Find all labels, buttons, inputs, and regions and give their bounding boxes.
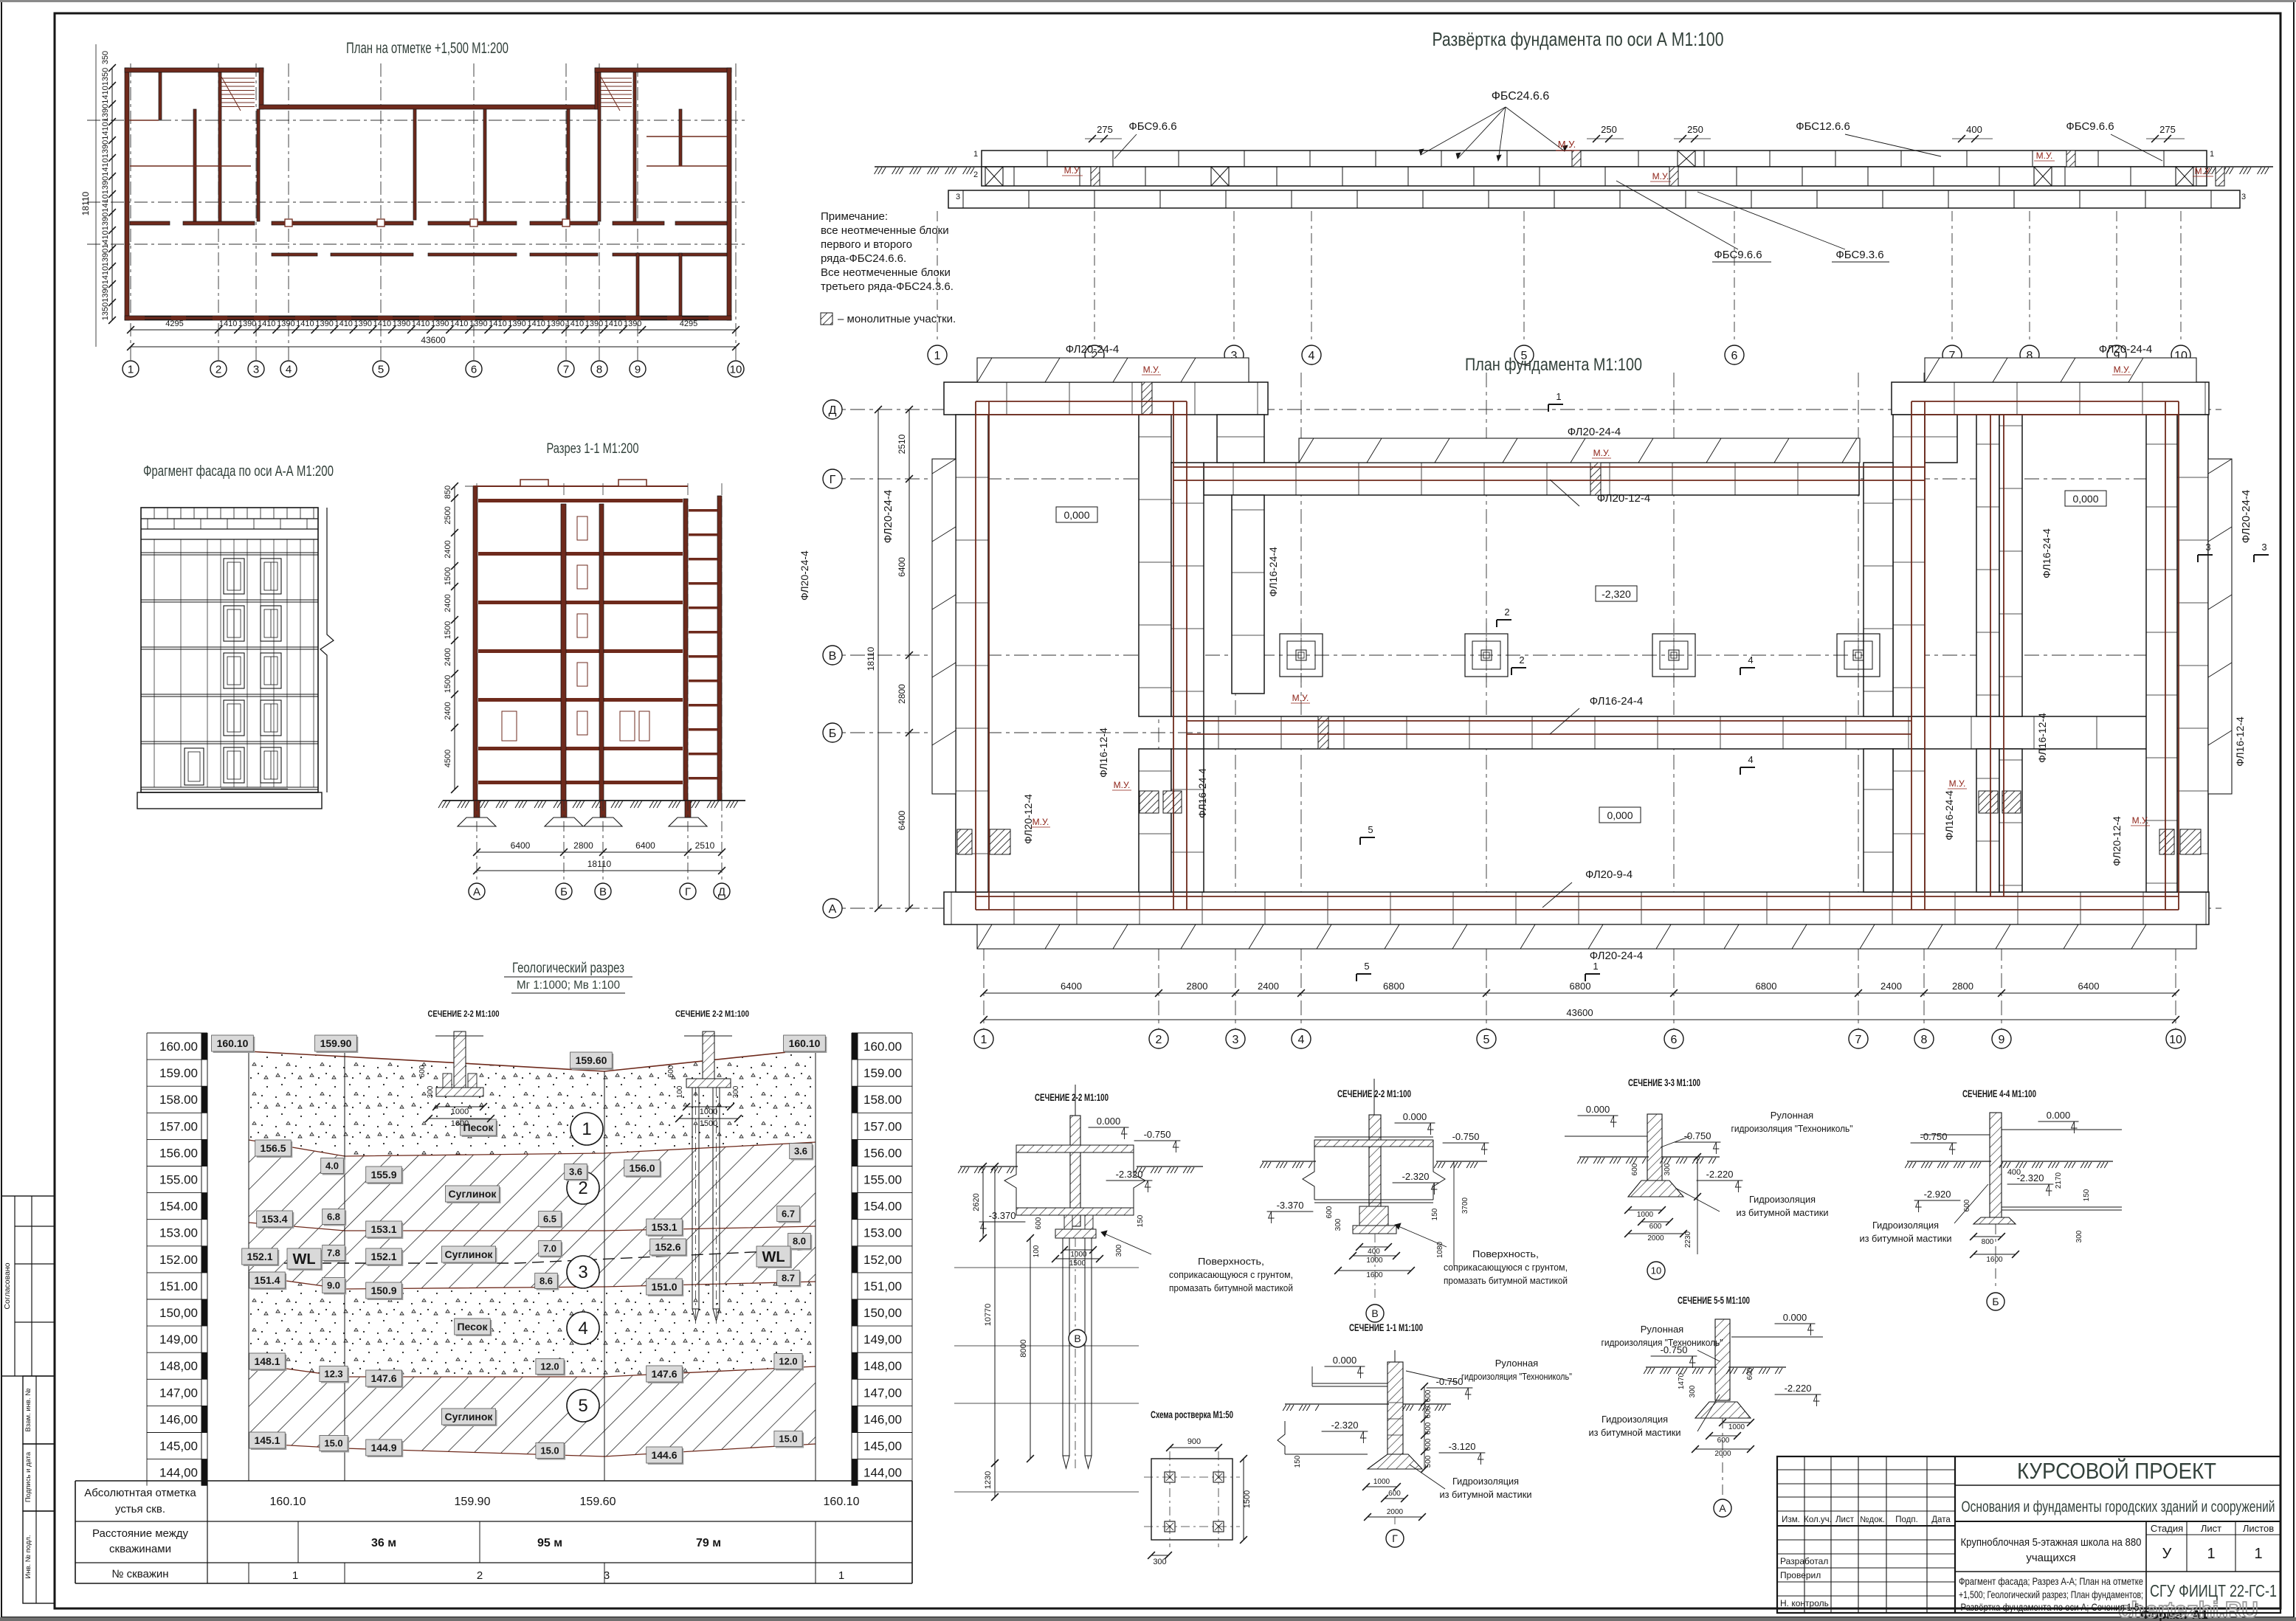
svg-text:1390: 1390 — [101, 249, 110, 266]
svg-text:1390: 1390 — [101, 212, 110, 230]
svg-text:8.6: 8.6 — [539, 1276, 553, 1287]
svg-text:1: 1 — [1556, 391, 1561, 402]
svg-text:WL: WL — [292, 1251, 315, 1268]
svg-text:6.8: 6.8 — [327, 1212, 340, 1223]
svg-text:промазать битумной мастикой: промазать битумной мастикой — [1444, 1275, 1568, 1286]
svg-text:1500: 1500 — [444, 621, 452, 639]
svg-text:2: 2 — [216, 363, 221, 376]
svg-text:148,00: 148,00 — [159, 1359, 198, 1373]
svg-text:промазать битумной мастикой: промазать битумной мастикой — [1169, 1282, 1293, 1293]
band G middle — [1204, 463, 1859, 495]
svg-text:М.У.: М.У. — [2195, 166, 2212, 176]
svg-text:153.00: 153.00 — [159, 1226, 198, 1240]
section outline — [476, 483, 478, 801]
svg-text:1230: 1230 — [984, 1471, 993, 1489]
svg-text:3700: 3700 — [1461, 1197, 1469, 1214]
svg-text:6400: 6400 — [635, 840, 655, 851]
svg-text:1410: 1410 — [373, 319, 391, 328]
svg-text:145.1: 145.1 — [254, 1434, 280, 1446]
svg-text:9.0: 9.0 — [327, 1280, 340, 1291]
svg-text:4295: 4295 — [680, 319, 697, 328]
svg-text:600: 600 — [1388, 1490, 1401, 1498]
svg-text:6400: 6400 — [1061, 981, 1082, 992]
svg-text:150: 150 — [1294, 1455, 1302, 1468]
svg-text:Подп.: Подп. — [1895, 1515, 1918, 1524]
svg-text:3: 3 — [956, 193, 960, 201]
svg-text:160.00: 160.00 — [863, 1040, 902, 1054]
left margin table Взам.инв — [23, 1376, 55, 1444]
svg-text:2000: 2000 — [1714, 1450, 1731, 1458]
svg-text:ФБС9.6.6: ФБС9.6.6 — [2066, 120, 2114, 133]
svg-text:7.0: 7.0 — [543, 1243, 556, 1254]
svg-text:1390: 1390 — [393, 319, 410, 328]
development axis circles — [937, 211, 938, 344]
svg-text:-2.320: -2.320 — [1402, 1171, 1430, 1182]
svg-text:-3.120: -3.120 — [1449, 1441, 1476, 1452]
svg-text:155.00: 155.00 — [159, 1173, 198, 1187]
svg-text:2620: 2620 — [972, 1193, 981, 1211]
svg-text:План фундамента М1:100: План фундамента М1:100 — [1465, 355, 1642, 375]
soil name tags — [462, 1121, 498, 1137]
svg-text:ФЛ16-12-4: ФЛ16-12-4 — [2036, 713, 2048, 763]
svg-text:1000: 1000 — [700, 1107, 717, 1116]
svg-text:Абсолютнтая отметка: Абсолютнтая отметка — [84, 1487, 196, 1499]
svg-text:первого и второго: первого и второго — [821, 238, 912, 251]
left margin table Согласовано — [1, 1196, 55, 1376]
svg-text:1410: 1410 — [101, 266, 110, 284]
svg-text:152.1: 152.1 — [247, 1251, 272, 1262]
svg-text:Подпись и дата: Подпись и дата — [24, 1451, 32, 1502]
svg-text:152.00: 152.00 — [159, 1253, 198, 1267]
svg-text:4: 4 — [286, 363, 292, 376]
svg-text:2800: 2800 — [1952, 981, 1973, 992]
svg-text:Лист: Лист — [1835, 1515, 1855, 1524]
svg-text:150,00: 150,00 — [863, 1306, 902, 1320]
svg-text:36 м: 36 м — [371, 1537, 396, 1549]
svg-text:-2.220: -2.220 — [1706, 1169, 1734, 1180]
svg-text:Изм.: Изм. — [1782, 1515, 1800, 1524]
section axis circles — [476, 801, 478, 883]
svg-text:2: 2 — [1156, 1034, 1162, 1046]
svg-text:1410: 1410 — [101, 158, 110, 176]
svg-text:158.00: 158.00 — [863, 1093, 902, 1107]
svg-text:ФЛ20-12-4: ФЛ20-12-4 — [2111, 816, 2123, 866]
stairs left — [221, 77, 255, 79]
svg-text:М.У.: М.У. — [1652, 171, 1669, 182]
svg-text:1410: 1410 — [101, 230, 110, 248]
svg-text:Рулонная: Рулонная — [1771, 1110, 1813, 1121]
svg-text:Гидроизоляция: Гидроизоляция — [1749, 1194, 1816, 1205]
svg-text:1000: 1000 — [1637, 1211, 1654, 1219]
svg-text:8000: 8000 — [1019, 1339, 1028, 1357]
svg-text:600: 600 — [1424, 1389, 1433, 1402]
svg-text:1350: 1350 — [101, 68, 110, 86]
svg-text:5: 5 — [1368, 824, 1373, 835]
svg-text:0.000: 0.000 — [1783, 1312, 1807, 1323]
svg-text:151.0: 151.0 — [651, 1281, 677, 1293]
svg-text:158.00: 158.00 — [159, 1093, 198, 1107]
svg-text:ФЛ16-24-4: ФЛ16-24-4 — [1943, 790, 1955, 840]
svg-text:600: 600 — [1746, 1367, 1754, 1380]
svg-text:№док.: №док. — [1860, 1515, 1885, 1524]
svg-text:1000: 1000 — [1728, 1423, 1745, 1431]
stairs right — [601, 77, 632, 79]
svg-text:Лист: Лист — [2201, 1523, 2221, 1534]
development monolith X blocks — [985, 167, 1003, 186]
svg-text:из битумной мастики: из битумной мастики — [1440, 1489, 1532, 1500]
svg-text:147,00: 147,00 — [159, 1386, 198, 1400]
svg-text:1410: 1410 — [101, 194, 110, 212]
svg-text:учащихся: учащихся — [2026, 1552, 2075, 1564]
svg-text:300: 300 — [1334, 1218, 1342, 1231]
floor plan outer walls — [125, 68, 129, 320]
svg-text:600: 600 — [1424, 1406, 1433, 1418]
right tower vertical bands — [1893, 415, 1925, 716]
svg-text:10: 10 — [1651, 1265, 1661, 1276]
svg-text:М.У.: М.У. — [2114, 364, 2131, 375]
svg-text:151,00: 151,00 — [863, 1279, 902, 1293]
svg-text:соприкасающуюся с грунтом,: соприкасающуюся с грунтом, — [1444, 1262, 1568, 1273]
svg-text:156.00: 156.00 — [863, 1146, 902, 1160]
svg-text:160.10: 160.10 — [824, 1496, 860, 1508]
svg-text:159.60: 159.60 — [580, 1496, 616, 1508]
svg-text:1000: 1000 — [451, 1107, 469, 1116]
svg-text:2800: 2800 — [897, 684, 907, 704]
svg-text:третьего ряда-ФБС24.3.6.: третьего ряда-ФБС24.3.6. — [821, 280, 954, 293]
svg-text:0.000: 0.000 — [1097, 1116, 1121, 1127]
svg-text:149,00: 149,00 — [159, 1333, 198, 1347]
svg-text:2400: 2400 — [444, 594, 452, 612]
svg-text:1000: 1000 — [1373, 1478, 1390, 1486]
svg-text:152.1: 152.1 — [370, 1251, 396, 1262]
svg-text:8.7: 8.7 — [782, 1273, 795, 1284]
svg-text:144,00: 144,00 — [863, 1466, 902, 1480]
svg-text:1600: 1600 — [451, 1119, 469, 1128]
svg-text:М.У.: М.У. — [1558, 139, 1576, 150]
svg-text:М.У.: М.У. — [1064, 165, 1081, 176]
svg-text:1470: 1470 — [1678, 1372, 1686, 1389]
svg-text:144,00: 144,00 — [159, 1466, 198, 1480]
svg-text:-0.750: -0.750 — [1920, 1131, 1948, 1142]
facade outline — [141, 508, 318, 792]
svg-text:600: 600 — [1325, 1206, 1334, 1218]
svg-text:Б: Б — [560, 885, 568, 898]
svg-text:2: 2 — [973, 170, 978, 179]
svg-text:В: В — [599, 885, 607, 898]
svg-text:156.00: 156.00 — [159, 1146, 198, 1160]
svg-text:157.00: 157.00 — [863, 1119, 902, 1133]
plan bottom dim chains — [131, 329, 642, 331]
svg-text:2000: 2000 — [1647, 1234, 1664, 1242]
svg-text:СЕЧЕНИЕ 2-2 М1:100: СЕЧЕНИЕ 2-2 М1:100 — [1035, 1091, 1109, 1103]
svg-text:7: 7 — [563, 363, 569, 376]
svg-text:А: А — [829, 903, 837, 916]
svg-text:250: 250 — [1601, 124, 1617, 135]
svg-text:-3.370: -3.370 — [1277, 1200, 1304, 1211]
svg-text:1500: 1500 — [444, 567, 452, 585]
svg-text:ФБС9.3.6: ФБС9.3.6 — [1835, 249, 1883, 261]
svg-text:Д: Д — [718, 885, 725, 898]
development block rows — [982, 151, 2207, 167]
svg-text:1390: 1390 — [431, 319, 449, 328]
svg-text:Мг 1:1000; Мв 1:100: Мг 1:1000; Мв 1:100 — [517, 979, 620, 992]
svg-text:10: 10 — [2169, 1034, 2182, 1046]
svg-text:Разрез 1-1 М1:200: Разрез 1-1 М1:200 — [547, 441, 639, 457]
svg-text:2800: 2800 — [1187, 981, 1208, 992]
svg-text:144.6: 144.6 — [651, 1449, 677, 1461]
svg-text:79 м: 79 м — [696, 1537, 721, 1549]
svg-text:1410: 1410 — [101, 86, 110, 103]
title block right part — [1955, 1485, 2281, 1486]
svg-text:Основания и фундаменты городск: Основания и фундаменты городских зданий … — [1962, 1499, 2275, 1515]
svg-text:ФБС9.6.6: ФБС9.6.6 — [1128, 120, 1176, 133]
svg-text:2400: 2400 — [444, 702, 452, 719]
svg-text:0,000: 0,000 — [2072, 493, 2098, 505]
svg-text:скважинами: скважинами — [109, 1543, 171, 1555]
svg-text:400: 400 — [2007, 1168, 2021, 1177]
svg-text:300: 300 — [1689, 1385, 1697, 1397]
svg-text:Геологический разрез: Геологический разрез — [512, 961, 624, 976]
svg-text:1410: 1410 — [101, 122, 110, 139]
svg-text:2400: 2400 — [1880, 981, 1902, 992]
section inner walls — [561, 504, 566, 801]
svg-text:СЕЧЕНИЕ 1-1 М1:100: СЕЧЕНИЕ 1-1 М1:100 — [1349, 1321, 1423, 1333]
svg-text:4: 4 — [1309, 350, 1315, 362]
svg-text:0,000: 0,000 — [1607, 809, 1633, 821]
svg-text:6.5: 6.5 — [543, 1214, 556, 1225]
svg-text:18110: 18110 — [80, 191, 91, 215]
facade panel joints — [154, 539, 155, 787]
svg-text:8: 8 — [596, 363, 602, 376]
facade windows — [224, 559, 244, 594]
svg-text:150,00: 150,00 — [159, 1306, 198, 1320]
brown building outline over foundation — [976, 401, 1187, 402]
svg-text:ФЛ16-24-4: ФЛ16-24-4 — [2041, 528, 2052, 578]
svg-text:Фрагмент фасада по оси А-А М1:: Фрагмент фасада по оси А-А М1:200 — [143, 463, 334, 480]
svg-text:8.0: 8.0 — [793, 1236, 806, 1247]
svg-text:300: 300 — [427, 1085, 435, 1098]
svg-text:2: 2 — [1519, 654, 1524, 666]
section bottom dims — [477, 851, 722, 853]
svg-text:6800: 6800 — [1756, 981, 1777, 992]
svg-text:9: 9 — [1999, 1034, 2005, 1046]
svg-text:3: 3 — [1233, 1034, 1239, 1046]
svg-text:300: 300 — [1664, 1163, 1672, 1175]
svg-text:12.3: 12.3 — [324, 1369, 342, 1380]
svg-text:1: 1 — [2207, 1546, 2215, 1562]
plan left dim chain — [111, 68, 113, 320]
section roof and floors — [478, 499, 683, 502]
floor plan grid lines — [130, 63, 131, 378]
WL line — [249, 1249, 816, 1263]
svg-text:5: 5 — [1364, 961, 1369, 972]
svg-text:1390: 1390 — [315, 319, 333, 328]
svg-text:1390: 1390 — [101, 284, 110, 302]
svg-text:1390: 1390 — [354, 319, 372, 328]
svg-text:159.90: 159.90 — [455, 1496, 491, 1508]
floor plan corridor walls — [130, 221, 170, 225]
svg-text:Примечание:: Примечание: — [821, 210, 888, 223]
svg-text:155.00: 155.00 — [863, 1173, 902, 1187]
svg-text:4: 4 — [1298, 1034, 1305, 1046]
svg-text:гидроизоляция "Технониколь": гидроизоляция "Технониколь" — [1602, 1337, 1723, 1348]
svg-text:147.6: 147.6 — [370, 1372, 396, 1384]
svg-text:Все неотмеченные блоки: Все неотмеченные блоки — [821, 266, 951, 279]
svg-text:-2,320: -2,320 — [1602, 588, 1631, 600]
svg-text:Кол.уч.: Кол.уч. — [1804, 1515, 1832, 1524]
svg-text:12.0: 12.0 — [779, 1356, 797, 1367]
svg-text:600: 600 — [1717, 1437, 1730, 1445]
svg-text:М.У.: М.У. — [1114, 780, 1131, 790]
svg-text:соприкасающуюся с грунтом,: соприкасающуюся с грунтом, — [1169, 1269, 1293, 1280]
svg-text:1410: 1410 — [258, 319, 275, 328]
svg-text:154.00: 154.00 — [863, 1200, 902, 1214]
svg-text:-2.920: -2.920 — [1924, 1189, 1951, 1200]
svg-text:6400: 6400 — [2078, 981, 2100, 992]
svg-text:0.000: 0.000 — [2047, 1110, 2071, 1121]
svg-text:145,00: 145,00 — [863, 1439, 902, 1454]
svg-text:ряда-ФБС24.6.6.: ряда-ФБС24.6.6. — [821, 252, 906, 265]
svg-text:300: 300 — [732, 1085, 740, 1098]
svg-text:СЕЧЕНИЕ 3-3 М1:100: СЕЧЕНИЕ 3-3 М1:100 — [1628, 1076, 1700, 1088]
svg-text:А: А — [473, 885, 480, 898]
svg-text:-0.750: -0.750 — [1144, 1129, 1171, 1140]
left small partitions lines — [130, 120, 159, 121]
svg-text:600: 600 — [1035, 1217, 1043, 1229]
svg-text:12.0: 12.0 — [540, 1361, 559, 1372]
svg-text:160.10: 160.10 — [217, 1037, 249, 1049]
svg-text:1500: 1500 — [1069, 1259, 1086, 1268]
svg-text:М.У.: М.У. — [1143, 364, 1160, 375]
svg-text:-2.220: -2.220 — [1785, 1383, 1812, 1394]
facade floor lines — [141, 552, 318, 553]
svg-text:2230: 2230 — [1684, 1231, 1692, 1248]
svg-text:2400: 2400 — [1258, 981, 1279, 992]
svg-text:4.0: 4.0 — [325, 1161, 339, 1172]
left margin table Инв № подл — [23, 1511, 55, 1603]
svg-text:Проверил: Проверил — [1780, 1570, 1821, 1580]
svg-text:2400: 2400 — [444, 540, 452, 558]
svg-text:М.У.: М.У. — [1032, 817, 1049, 827]
svg-text:2: 2 — [578, 1178, 587, 1198]
svg-text:2500: 2500 — [444, 506, 452, 524]
svg-text:1500: 1500 — [444, 675, 452, 693]
svg-text:148,00: 148,00 — [863, 1359, 902, 1373]
svg-text:3: 3 — [2261, 542, 2266, 553]
svg-text:6800: 6800 — [1383, 981, 1404, 992]
svg-text:Г: Г — [685, 885, 691, 898]
svg-text:Дата: Дата — [1931, 1515, 1951, 1524]
svg-text:150: 150 — [1431, 1208, 1439, 1220]
svg-text:18110: 18110 — [866, 646, 876, 671]
svg-text:160.10: 160.10 — [270, 1496, 306, 1508]
svg-text:У: У — [2162, 1546, 2172, 1562]
svg-text:ФЛ16-24-4: ФЛ16-24-4 — [1267, 547, 1279, 597]
svg-text:М.У.: М.У. — [1949, 778, 1966, 789]
svg-text:-0.750: -0.750 — [1452, 1131, 1480, 1142]
svg-text:Разработал: Разработал — [1780, 1556, 1828, 1566]
svg-text:Б: Б — [1992, 1296, 1999, 1307]
window marks bottom wall — [145, 316, 171, 317]
svg-text:1410: 1410 — [489, 319, 506, 328]
svg-text:154.00: 154.00 — [159, 1200, 198, 1214]
svg-text:43600: 43600 — [421, 335, 446, 345]
foundation plan left dims — [909, 409, 910, 908]
svg-text:1: 1 — [292, 1569, 298, 1582]
svg-text:9: 9 — [635, 363, 641, 376]
svg-text:7: 7 — [1855, 1034, 1862, 1046]
svg-text:150: 150 — [1137, 1214, 1145, 1227]
svg-text:400: 400 — [1966, 124, 1982, 135]
svg-text:1410: 1410 — [412, 319, 430, 328]
svg-text:1410: 1410 — [527, 319, 545, 328]
svg-text:Б: Б — [829, 727, 837, 740]
svg-text:300: 300 — [1115, 1244, 1123, 1257]
svg-text:Суглинок: Суглинок — [449, 1188, 497, 1200]
svg-text:1410: 1410 — [566, 319, 584, 328]
svg-text:159.60: 159.60 — [576, 1054, 607, 1066]
svg-text:ФЛ16-24-4: ФЛ16-24-4 — [1196, 768, 1208, 818]
section 2-2 dims — [982, 1167, 984, 1238]
svg-text:КУРСОВОЙ ПРОЕКТ: КУРСОВОЙ ПРОЕКТ — [2017, 1457, 2216, 1484]
svg-text:600: 600 — [1424, 1422, 1433, 1434]
section foundations — [474, 801, 480, 818]
svg-text:43600: 43600 — [1566, 1007, 1593, 1018]
geo bottom table — [75, 1480, 912, 1482]
svg-text:устья скв.: устья скв. — [115, 1503, 165, 1515]
svg-text:Гидроизоляция: Гидроизоляция — [1872, 1220, 1939, 1231]
svg-text:3.6: 3.6 — [794, 1146, 807, 1157]
svg-text:1410: 1410 — [219, 319, 237, 328]
svg-text:гидроизоляция "Технониколь": гидроизоляция "Технониколь" — [1461, 1371, 1572, 1382]
svg-text:275: 275 — [2159, 124, 2176, 135]
svg-text:Г: Г — [1392, 1532, 1398, 1544]
band B middle — [1204, 716, 2170, 749]
svg-text:2800: 2800 — [573, 840, 593, 851]
svg-text:153.1: 153.1 — [651, 1221, 677, 1233]
svg-text:В: В — [829, 650, 837, 663]
svg-text:2400: 2400 — [444, 648, 452, 666]
svg-text:СЕЧЕНИЕ 2-2 М1:100: СЕЧЕНИЕ 2-2 М1:100 — [675, 1009, 749, 1019]
svg-text:250: 250 — [1687, 124, 1703, 135]
svg-text:0,000: 0,000 — [1063, 509, 1089, 521]
svg-text:5: 5 — [378, 363, 384, 376]
svg-text:4: 4 — [1748, 754, 1753, 765]
svg-text:155.9: 155.9 — [370, 1169, 396, 1181]
svg-text:1410: 1410 — [604, 319, 622, 328]
svg-text:1: 1 — [973, 150, 978, 159]
svg-text:147.6: 147.6 — [651, 1368, 677, 1380]
svg-text:600: 600 — [1424, 1438, 1433, 1451]
svg-text:275: 275 — [1097, 124, 1113, 135]
svg-text:Г: Г — [830, 474, 836, 486]
svg-text:300: 300 — [2075, 1230, 2083, 1242]
svg-text:М.У.: М.У. — [2036, 151, 2053, 161]
svg-text:СЕЧЕНИЕ 2-2 М1:100: СЕЧЕНИЕ 2-2 М1:100 — [428, 1009, 500, 1019]
svg-text:100: 100 — [1032, 1245, 1041, 1257]
svg-text:2170: 2170 — [2055, 1172, 2063, 1189]
svg-text:Инв. № подл.: Инв. № подл. — [24, 1535, 32, 1578]
svg-text:3: 3 — [253, 363, 259, 376]
svg-text:152,00: 152,00 — [863, 1253, 902, 1267]
svg-text:ФЛ20-24-4: ФЛ20-24-4 — [2240, 490, 2252, 543]
svg-text:Стадия: Стадия — [2151, 1523, 2183, 1534]
svg-text:В: В — [1371, 1307, 1378, 1319]
svg-text:151.00: 151.00 — [159, 1279, 198, 1293]
svg-text:8: 8 — [1921, 1034, 1928, 1046]
svg-text:Поверхность,: Поверхность, — [1472, 1248, 1539, 1259]
svg-text:№ скважин: № скважин — [111, 1568, 168, 1580]
